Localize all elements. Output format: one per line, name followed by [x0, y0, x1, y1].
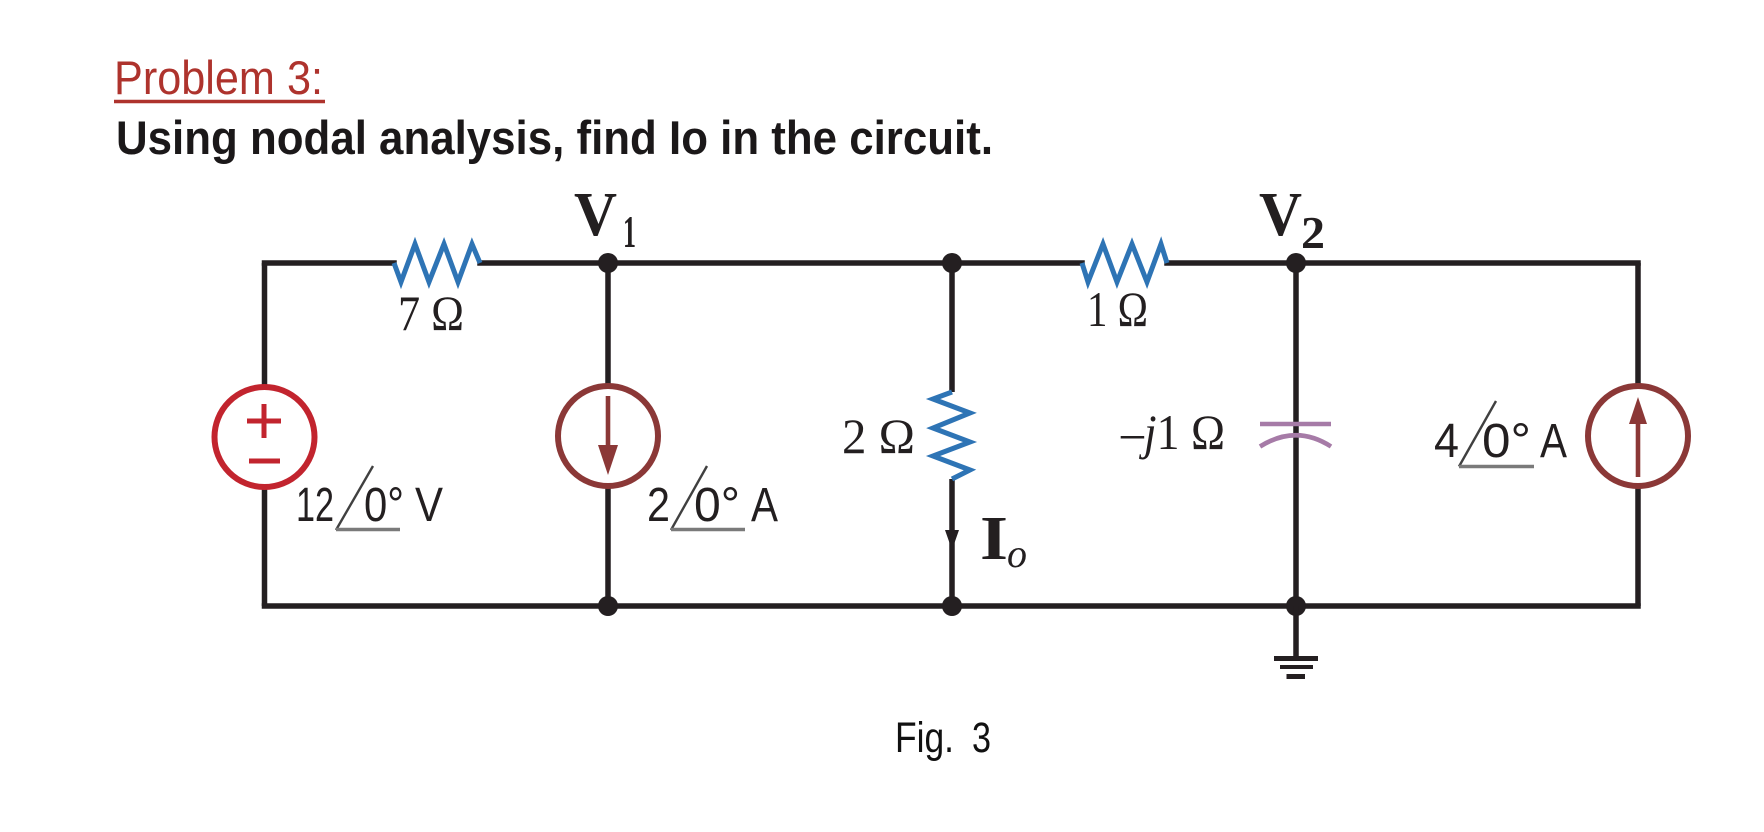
node top middle dot [942, 253, 962, 273]
svg-text:I: I [980, 505, 1008, 573]
voltage source 12V [215, 387, 315, 487]
resistor 2ohm [933, 392, 970, 479]
svg-text:Problem 3:: Problem 3: [114, 51, 323, 104]
svg-text:A: A [751, 479, 778, 532]
svg-text:–j1 Ω: –j1 Ω [1120, 404, 1225, 460]
svg-text:Fig.: Fig. [895, 714, 954, 762]
svg-text:2: 2 [1301, 207, 1325, 258]
current source 4A [1588, 386, 1688, 486]
node bottom ground dot [1286, 596, 1306, 616]
svg-text:2: 2 [647, 479, 670, 532]
svg-text:Using nodal analysis, find Io: Using nodal analysis, find Io in the cir… [116, 111, 993, 164]
wire right branch [1635, 263, 1641, 606]
svg-text:3: 3 [972, 714, 991, 762]
capacitor -j1ohm [1260, 424, 1331, 447]
label 2 angle 0 A [647, 466, 778, 532]
svg-text:A: A [1540, 415, 1567, 468]
svg-text:o: o [1007, 531, 1027, 576]
svg-text:4: 4 [1434, 415, 1459, 468]
svg-text:V: V [415, 479, 443, 532]
caption Fig. 3 [895, 714, 991, 762]
label 12 angle 0 V [296, 466, 443, 532]
wire V2 capacitor branch [1293, 263, 1299, 606]
svg-text:1 Ω: 1 Ω [1087, 281, 1148, 337]
node bottom V1 dot [598, 596, 618, 616]
svg-text:V: V [574, 181, 617, 249]
resistor 1ohm [1082, 244, 1167, 282]
title Problem 3: [114, 51, 325, 104]
wire top [265, 260, 1639, 266]
resistor 7ohm [394, 244, 480, 282]
label V1 [574, 181, 636, 257]
wire bottom [265, 603, 1639, 609]
svg-text:0°: 0° [364, 479, 404, 532]
node bottom middle dot [942, 596, 962, 616]
node V2 dot [1286, 253, 1306, 273]
svg-text:1: 1 [623, 206, 636, 257]
wire middle branch [949, 263, 955, 606]
arrow Io on middle branch [945, 530, 959, 550]
svg-text:0°: 0° [1482, 415, 1531, 468]
ground [1274, 606, 1318, 677]
svg-text:7 Ω: 7 Ω [398, 285, 464, 341]
svg-text:2 Ω: 2 Ω [842, 408, 915, 464]
wire left branch [262, 263, 268, 606]
label V2 [1259, 181, 1325, 258]
label Io [980, 505, 1027, 576]
label 4 angle 0 A [1434, 401, 1567, 468]
wire V1 branch [605, 263, 611, 606]
node V1 dot [598, 253, 618, 273]
svg-text:V: V [1259, 181, 1302, 249]
svg-text:0°: 0° [694, 479, 740, 532]
current source 2A [558, 386, 658, 486]
svg-text:12: 12 [296, 479, 334, 532]
